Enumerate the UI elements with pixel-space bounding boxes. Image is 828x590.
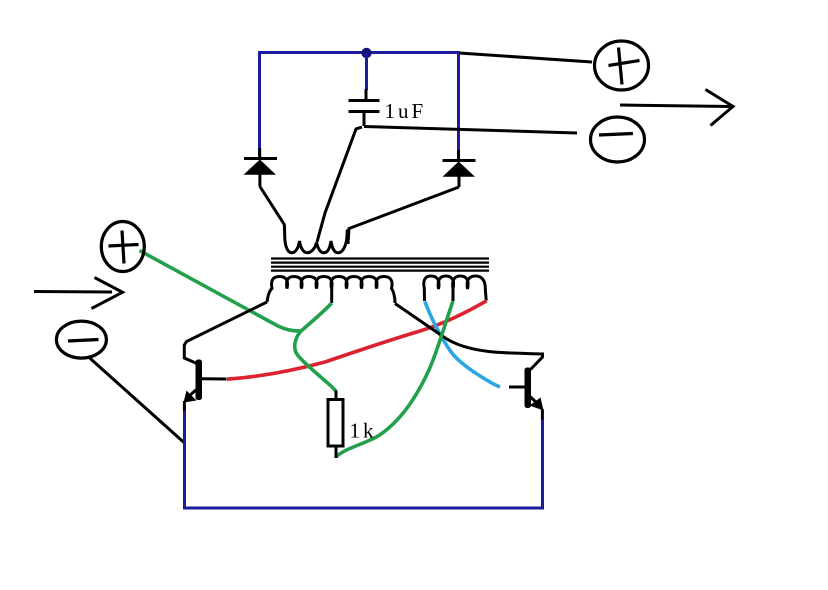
wire primary center tap down (green) xyxy=(301,303,332,331)
resistor R1 xyxy=(328,391,343,459)
wire Q1 emitter stub (black) xyxy=(183,401,186,412)
wire right winding right end to Q1 base (red) xyxy=(227,301,487,379)
wire D2 anode to secondary right end xyxy=(348,187,459,244)
svg-text:1k: 1k xyxy=(350,419,377,443)
wire D1 anode to secondary left end xyxy=(260,187,285,232)
output direction arrow xyxy=(620,90,733,126)
wire center junction to resistor top (green) xyxy=(295,331,336,391)
transistor Q2 xyxy=(509,368,544,411)
diode D2 (right) xyxy=(443,150,476,187)
wire minus output line (cap bottom to minus terminal) xyxy=(364,127,577,134)
wire capacitor top lead (blue part) xyxy=(365,53,368,90)
wire capacitor bottom to secondary center tap xyxy=(317,127,362,242)
wire primary left end to Q1 collector xyxy=(184,302,267,365)
diode D1 (left) xyxy=(244,148,278,187)
transformer T1 primary right winding (4 arches) xyxy=(424,276,486,301)
input terminal + (circle) xyxy=(101,222,144,272)
svg-text:1uF: 1uF xyxy=(385,99,427,123)
transistor Q1 xyxy=(184,360,227,403)
transformer T1 primary left winding (8 arches) xyxy=(267,277,395,304)
output terminal - (circle) xyxy=(591,117,645,162)
transformer T1 core (4 lamination lines) xyxy=(271,259,489,271)
input terminal - (ellipse) xyxy=(56,321,106,358)
wire right winding left end to Q2 base (cyan) xyxy=(425,302,500,388)
wire input - to emitter rail xyxy=(88,357,184,443)
wire primary center tap stub (black) xyxy=(330,287,333,303)
wire emitter rail (blue bottom rectangle) xyxy=(185,411,543,508)
capacitor C1 xyxy=(349,101,380,127)
node A (junction dot on top rail) xyxy=(361,48,371,58)
wire Q2 emitter stub (black) xyxy=(541,409,544,421)
wire input + to center junction (green) xyxy=(140,251,302,332)
wire primary right end to Q2 collector (curve) xyxy=(395,304,543,370)
wire capacitor top lead (black part) xyxy=(365,89,368,99)
wire right winding center to resistor bottom (green) xyxy=(336,301,453,457)
wire plus output line (top rail to plus terminal) xyxy=(459,53,592,62)
input direction arrow xyxy=(34,278,123,309)
transformer T1 secondary winding (top, 4 loops) xyxy=(285,226,348,253)
output terminal + (circle) xyxy=(595,41,649,90)
wire V+ top rail (blue) xyxy=(260,53,459,158)
